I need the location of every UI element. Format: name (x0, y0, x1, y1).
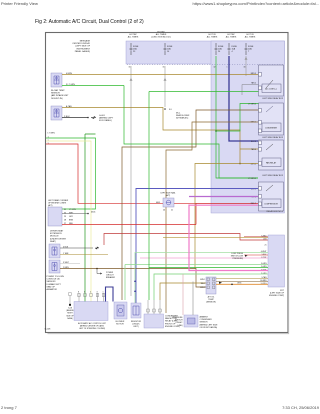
junction block bottom tick row (127, 64, 283, 66)
wire brown relay R2 to condenser fan (166, 122, 258, 313)
fuse F5 (245, 43, 247, 55)
actuator D box (49, 244, 60, 258)
svg-text:31: 31 (64, 209, 66, 211)
svg-text:MOTOR: MOTOR (116, 324, 124, 326)
svg-text:(ON A/C: (ON A/C (132, 323, 140, 326)
relay pin labels column (248, 73, 256, 205)
wire green branch to relay R2 pin 1 (216, 104, 259, 132)
left frame connector ticks (48, 133, 56, 145)
driver seat module caption (50, 230, 66, 243)
svg-text:IN-CAR TEMP: IN-CAR TEMP (51, 89, 65, 92)
svg-text:5: 5 (90, 291, 91, 293)
module box C (power window module) (48, 207, 62, 226)
wire gray drop from fuse F5 (245, 56, 247, 76)
actuator E box (49, 260, 60, 273)
svg-text:G-508: G-508 (45, 329, 52, 331)
condenser fan relay box (144, 314, 164, 328)
svg-text:ALL TIMES: ALL TIMES (156, 33, 167, 36)
svg-text:ALL TIMES: ALL TIMES (245, 36, 256, 39)
svg-text:(SENSOR): (SENSOR) (206, 302, 216, 304)
svg-text:BRN 3: BRN 3 (200, 287, 205, 289)
svg-text:AMBIENT: AMBIENT (200, 316, 209, 319)
svg-text:S-5: S-5 (169, 109, 172, 111)
svg-text:RELAY BOX NO.1: RELAY BOX NO.1 (267, 210, 284, 213)
wire red lower long (104, 234, 268, 246)
actuator A2 box (sunload sensor) (51, 106, 62, 120)
A/T box caption (206, 296, 216, 304)
svg-text:8: 8 (78, 291, 79, 293)
svg-text:MESSAGE: MESSAGE (80, 40, 91, 43)
svg-text:LT GRN: LT GRN (69, 209, 76, 211)
ground caption column (66, 308, 74, 320)
wire black box C pin (62, 213, 88, 215)
diagram frame (46, 33, 289, 333)
wire black from D (60, 247, 93, 249)
wire black A2 stub (62, 117, 88, 119)
wire pale green long row to L3 (135, 253, 268, 304)
svg-text:ALL TIMES: ALL TIMES (128, 36, 139, 39)
svg-text:OF FRONT FASCIA): OF FRONT FASCIA) (200, 326, 218, 329)
wire white from E (60, 263, 80, 265)
wire tan A2 routing (62, 108, 258, 164)
splice branch caption (106, 272, 116, 279)
svg-text:21: 21 (265, 245, 267, 247)
figure title (35, 19, 144, 25)
relay R3 (condenser fan relay) (259, 140, 284, 170)
condenser fan caption right (165, 316, 180, 328)
blower unit box pair (114, 302, 127, 319)
svg-text:2 BLK: 2 BLK (64, 116, 70, 118)
thermal protector TP1 caption (160, 192, 176, 198)
svg-text:3 LT GRN: 3 LT GRN (66, 84, 75, 86)
splice dot on orange (231, 284, 233, 286)
svg-text:4601: 4601 (156, 202, 160, 204)
compressor caption (200, 316, 219, 329)
inline connector arrows on blue wire (134, 280, 136, 292)
svg-text:BRN 3: BRN 3 (251, 73, 256, 75)
splice 4601 dot (87, 213, 89, 215)
wire red long from box C (62, 224, 196, 226)
compressor feed wire 2 (192, 282, 194, 316)
wire navy U loop to blower (106, 287, 114, 302)
svg-text:ORG: ORG (237, 283, 242, 285)
svg-text:20: 20 (163, 210, 165, 212)
svg-text:LEFT SIDE RAIL: LEFT SIDE RAIL (160, 192, 176, 195)
svg-text:(ON A/C: (ON A/C (175, 321, 183, 324)
wire pale green L3 row 264.5 (125, 265, 268, 301)
svg-text:TAN 2: TAN 2 (201, 282, 206, 285)
svg-text:SEAT OF: SEAT OF (47, 285, 56, 288)
svg-text:31: 31 (163, 67, 165, 69)
relay R1 (blower hi relay) (259, 65, 284, 96)
wire green drop from fuse F3 (216, 56, 258, 178)
comp pressure arrow (245, 255, 248, 257)
svg-text:TAN 4: TAN 4 (251, 148, 256, 151)
svg-text:30: 30 (244, 67, 246, 69)
svg-text:LEFT REAR CORNER: LEFT REAR CORNER (48, 199, 69, 202)
wire tan A1 to relay R1 (62, 74, 258, 76)
pin number 31 under fuse F1 (129, 67, 246, 69)
svg-text:(W/ REAR A/C): (W/ REAR A/C) (176, 117, 189, 120)
L3 pin rows labels (260, 235, 267, 285)
heater fan caption (131, 321, 142, 328)
wire brown long from E (60, 269, 206, 288)
message center text block (72, 40, 90, 53)
svg-text:28: 28 (64, 220, 66, 222)
svg-text:HOT AT: HOT AT (227, 33, 235, 36)
svg-text:SEAT): SEAT) (50, 240, 56, 243)
wire green from frame (46, 138, 96, 209)
label G-401 (64, 115, 114, 122)
wire tan condenser to A/T box (160, 283, 206, 300)
svg-text:1 TAN: 1 TAN (63, 252, 69, 255)
svg-text:BREAKER: BREAKER (106, 276, 116, 279)
climate control unit box (74, 302, 108, 321)
svg-text:LEFT SIDE RELAY BOX: LEFT SIDE RELAY BOX (262, 136, 283, 139)
wire tan from D (60, 254, 108, 256)
svg-text:(BEHIND CENTER OF DASH,: (BEHIND CENTER OF DASH, (80, 325, 105, 328)
actuator A1 caption (51, 89, 69, 100)
svg-text:IS BUILT-IN): IS BUILT-IN) (51, 98, 63, 100)
compressor feed wire 1 (182, 274, 184, 315)
junction MC-1 label (169, 109, 190, 120)
svg-text:2 BRN: 2 BRN (63, 267, 69, 269)
relay box area lavender (211, 41, 285, 213)
pin number labels above climate box (78, 291, 104, 293)
svg-text:A/T OIL: A/T OIL (208, 296, 216, 299)
svg-text:A TAN: A TAN (66, 105, 72, 108)
actuator A1 box (in-car temp sensor) (51, 73, 62, 87)
frame shadow (48, 35, 289, 334)
footer left page number (1, 405, 17, 410)
svg-text:LT GRN 5: LT GRN 5 (248, 103, 256, 105)
svg-text:TAN 2: TAN 2 (251, 81, 256, 84)
power seat caption (47, 276, 65, 291)
wire pale green2 L3 row 274 (154, 274, 268, 300)
wire tan A/T to L3 (216, 278, 268, 280)
wire brown relay R2 to bottom left (122, 110, 258, 300)
wire tan relay R3 lower pin (195, 164, 258, 269)
svg-text:ENGINE COMP): ENGINE COMP) (269, 295, 284, 297)
A/T oil temp connector box (206, 277, 216, 294)
splice S-311 dot (96, 268, 98, 270)
svg-text:(JUNCTION BLOCK): (JUNCTION BLOCK) (151, 37, 171, 39)
ground arrow after splice (91, 116, 96, 118)
svg-text:UNIT): UNIT) (133, 326, 139, 328)
thermal protector TP1 (163, 198, 174, 207)
wire green vertical branch (85, 134, 96, 302)
svg-text:COMPRESSOR: COMPRESSOR (264, 204, 278, 206)
wire pink trunk L3 row 270.5 (189, 205, 268, 271)
svg-text:LT GRN 5: LT GRN 5 (248, 178, 256, 180)
svg-text:DRIVER SEAT: DRIVER SEAT (50, 230, 64, 233)
A/T box inner pins (207, 278, 215, 289)
svg-text:LEFT SIDE RELAY BOX: LEFT SIDE RELAY BOX (262, 97, 283, 100)
fuse F4 (228, 43, 230, 55)
splice dot green branch (215, 130, 217, 132)
svg-text:REAR BLOWER: REAR BLOWER (176, 114, 190, 117)
svg-text:LT GRN: LT GRN (48, 133, 56, 135)
wire yellow from frame (46, 141, 91, 302)
wire green2 L3 row 267.5 (149, 92, 268, 301)
climate control caption (78, 322, 107, 330)
svg-text:(AIR INTAKE UNIT: (AIR INTAKE UNIT (51, 94, 69, 97)
junction arrow right of A/T box (219, 282, 222, 284)
svg-text:21: 21 (171, 210, 173, 212)
svg-text:6: 6 (84, 291, 85, 293)
compressor caption left (172, 317, 183, 327)
wire gray drop from fuse F2 (164, 66, 166, 107)
svg-text:PRESSURE): PRESSURE) (233, 258, 244, 260)
relay R2 (blower motor relay) (259, 103, 284, 135)
svg-text:LEFT OF STEERING COLUMN): LEFT OF STEERING COLUMN) (79, 328, 105, 330)
svg-text:(A/T): (A/T) (48, 204, 53, 207)
A/T pin labels left (200, 279, 205, 289)
wire red from frame (46, 144, 196, 225)
junction box L3 (front connector block) (268, 235, 285, 287)
svg-text:(A/T): (A/T) (166, 194, 171, 197)
svg-text:CENTER DISPLAY: CENTER DISPLAY (72, 42, 90, 45)
svg-text:ALL TIMES: ALL TIMES (226, 36, 237, 39)
condenser box pin stubs (148, 300, 160, 314)
wire brown A/T to L3 (216, 281, 268, 283)
header left (1, 1, 38, 6)
svg-text:3 WHT: 3 WHT (63, 262, 70, 264)
svg-text:BRN: BRN (69, 220, 74, 222)
heater fan resistor box (131, 303, 141, 318)
svg-text:3: 3 (97, 291, 98, 293)
wire pink to relay R4 (189, 204, 258, 206)
svg-text:FAN RELAY: FAN RELAY (266, 162, 277, 165)
svg-text:4 BLK: 4 BLK (63, 246, 69, 248)
header right url (192, 1, 319, 6)
pin squares condenser (147, 309, 161, 312)
svg-text:AUTOMATIC A/C CONTROL UNIT: AUTOMATIC A/C CONTROL UNIT (78, 322, 107, 325)
wire green corner to relay R2 (149, 91, 259, 93)
wire green loop to relay R3 (124, 86, 258, 179)
blower caption (116, 321, 125, 326)
fuse F2 (164, 43, 166, 55)
svg-text:4 BRN: 4 BRN (66, 73, 72, 75)
svg-text:LEFT SIDE RELAY BOX: LEFT SIDE RELAY BOX (262, 174, 283, 177)
wire navy from fuse F4 to relay R3 (229, 56, 258, 141)
svg-text:KICK PANEL): KICK PANEL) (99, 119, 112, 122)
fuse F3 (215, 43, 217, 55)
svg-text:HOT AT: HOT AT (129, 33, 137, 36)
junction block lavender strip (126, 41, 285, 64)
svg-text:DASH): DASH) (67, 317, 73, 320)
svg-text:31: 31 (129, 67, 131, 69)
comp pressure switch text (231, 253, 244, 260)
svg-text:CONDENSER: CONDENSER (265, 128, 278, 130)
splice dot tan/brown (239, 163, 241, 165)
svg-text:LUMBAR SUPT: LUMBAR SUPT (47, 283, 62, 286)
svg-text:32: 32 (214, 67, 216, 69)
wire violet to relay R4 (189, 196, 258, 198)
wire green A1 (62, 85, 124, 87)
compressor box (184, 315, 198, 327)
svg-text:A/C CONT(+): A/C CONT(+) (265, 88, 277, 91)
svg-text:ALL TIMES: ALL TIMES (207, 36, 218, 39)
wire blue to relay R4 (136, 189, 258, 304)
wire orange A/T to L3 (216, 283, 268, 285)
splice branch arrow (97, 269, 100, 274)
svg-text:GRN 1: GRN 1 (200, 279, 205, 281)
wire tan L3 row 237 (163, 236, 268, 238)
wire pale green condenser (154, 274, 240, 300)
svg-text:HOT AT: HOT AT (157, 31, 165, 34)
ground arrow G-508 (95, 247, 99, 249)
footer right timestamp (282, 405, 319, 410)
svg-text:ANIMATOR: ANIMATOR (47, 288, 58, 291)
splice S-5 on sensor drop (164, 108, 166, 110)
module box C caption above (48, 199, 69, 207)
svg-text:1: 1 (103, 291, 104, 293)
svg-text:PANEL GAGES): PANEL GAGES) (75, 50, 91, 53)
svg-text:1: 1 (227, 67, 228, 69)
wire pink L3 row 258 (140, 257, 268, 259)
TP1 pin labels (156, 202, 173, 212)
wire red L3 row 255 (244, 254, 268, 256)
fuse F1 (130, 43, 247, 55)
L3 caption (269, 290, 285, 297)
svg-text:29: 29 (64, 216, 66, 218)
wire gray drop from fuse F1 (130, 56, 247, 296)
svg-text:BLU 6: BLU 6 (251, 141, 256, 143)
svg-text:LINE): LINE) (178, 325, 183, 327)
label HOT AT ALL TIMES (left) (128, 31, 256, 39)
ground stub left of climate unit (69, 293, 71, 296)
wire red into relay R4 (196, 202, 258, 204)
module box C pin rows (64, 209, 76, 225)
climate box pin stubs (79, 293, 104, 302)
relay R4 (a/c compressor relay) (259, 182, 284, 211)
splice S-5 dot (87, 117, 89, 119)
wire gray from relay R1 coil (242, 85, 262, 96)
pin connector squares above climate box (78, 294, 105, 297)
